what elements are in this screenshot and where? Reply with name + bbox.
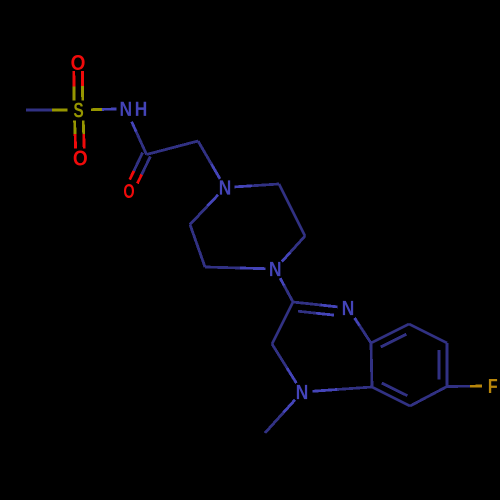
atom label N4 quinoxaline <box>297 385 307 399</box>
atom label O3 (amide O) <box>124 184 134 198</box>
wire: S-CH3 methyl bond <box>26 109 52 112</box>
atom label S1 <box>74 103 83 118</box>
CH2-N1(piperazine) bond <box>198 141 212 164</box>
S-N bond <box>91 108 102 111</box>
N4-CH3 methyl bond <box>284 400 296 413</box>
atom label O1 <box>71 55 84 70</box>
benzene C6-C5 bond <box>410 387 447 407</box>
atom label N-H (sulfonamide NH) <box>121 102 131 116</box>
piperazine C6-N1 bond <box>190 206 208 225</box>
C6-F bond <box>447 385 470 388</box>
N3-C8a bond <box>355 318 360 326</box>
benzene C8a=C8 bond <box>371 324 409 343</box>
N-C(=O) bond <box>132 122 137 132</box>
C3-C2 (quinox) bond <box>272 302 293 344</box>
atom label F <box>489 379 497 393</box>
benzene C7=C6 inner line <box>438 350 441 380</box>
N2(pip)-C2(quinoxaline) bond <box>280 278 284 285</box>
benzene C8-C7 bond <box>409 324 447 343</box>
C4a-N4 bond <box>337 387 372 390</box>
benzene C7=C6 bond <box>446 343 449 387</box>
piperazine N1-C2 bond <box>235 186 253 187</box>
benzene C4a-C8a bond <box>371 343 372 387</box>
atom label N3 quinoxaline <box>343 301 353 315</box>
benzene C8a=C8 inner line <box>381 334 407 347</box>
piperazine N2-C5 bond <box>240 267 266 271</box>
atom label N1 piperazine <box>220 180 230 194</box>
C(co)-CH2 bond <box>147 141 199 155</box>
C=O3 amide double bond <box>134 153 143 171</box>
S=O2 double bond <box>73 121 76 135</box>
atom label N2 piperazine <box>270 262 280 276</box>
S=O1 double bond <box>72 71 75 86</box>
N4-C3(quinox) bond <box>287 368 296 383</box>
piperazine C3-N2 bond <box>290 236 305 253</box>
C2=N3 imine double bond main line <box>293 302 321 305</box>
piperazine C2-C3 bond <box>279 184 305 236</box>
piperazine C5-C6 bond <box>190 225 205 268</box>
C2=N3 inner line <box>298 311 316 313</box>
benzene C5=C4a bond <box>372 387 410 406</box>
benzene C5=C4a inner line <box>382 383 408 396</box>
atom label O2 <box>74 151 87 166</box>
